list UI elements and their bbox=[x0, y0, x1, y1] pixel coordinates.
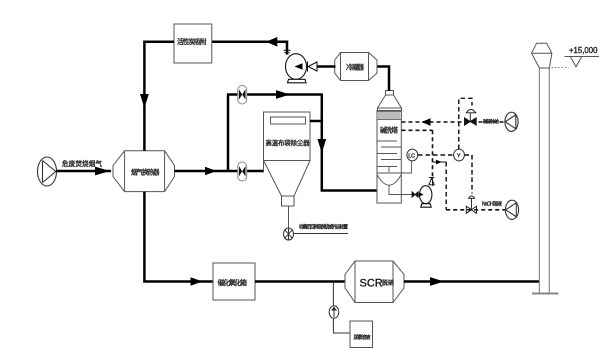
arrowhead right into pump bbox=[419, 192, 424, 197]
rotary star valve under hopper bbox=[284, 228, 294, 240]
control valve CV2 with actuator dome bbox=[466, 196, 476, 213]
node: raw flue gas source connector bbox=[38, 157, 57, 186]
wire: Y right and down signal to bottom control valve bbox=[465, 155, 473, 194]
alkali scrubber tower T1 bbox=[377, 91, 402, 204]
wire: fan discharge up and left bbox=[266, 42, 287, 55]
wire: branch jog to blowdown bbox=[433, 161, 447, 163]
arrowhead right into catalytic oxidation box bbox=[191, 277, 203, 286]
wire: condenser to check valve bbox=[317, 65, 336, 68]
wire: bypass horizontal line bbox=[227, 93, 322, 96]
damper valve V1 on bypass bbox=[238, 86, 247, 105]
wire: pump discharge stub bbox=[432, 178, 434, 186]
condenser E1 octagon bbox=[335, 53, 377, 81]
wire: catalytic box to SCR bbox=[255, 280, 345, 283]
wire: bag filter outlet bbox=[310, 120, 322, 123]
arrowhead down into heat exchanger bbox=[140, 94, 149, 108]
wire: carbon box to heat exchanger top bbox=[144, 42, 174, 151]
svg-text:Y: Y bbox=[457, 153, 461, 159]
urea injection valve circle with up arrow bbox=[329, 306, 339, 319]
LC level controller instrument bbox=[407, 149, 418, 161]
arrowhead down on downcomer bbox=[317, 139, 326, 153]
check valve on pump riser bbox=[429, 178, 435, 185]
svg-text:收集后回转窑焚烧或外运处置: 收集后回转窑焚烧或外运处置 bbox=[299, 224, 348, 231]
arrowhead right on HX outlet bbox=[205, 167, 217, 176]
wire: inlet to heat exchanger bbox=[57, 170, 112, 173]
arrowhead right into heat exchanger bbox=[95, 167, 110, 176]
svg-text:尿素溶液: 尿素溶液 bbox=[354, 334, 371, 341]
svg-text:+15,000: +15,000 bbox=[569, 46, 598, 55]
fan discharge flange ticks bbox=[284, 50, 291, 52]
svg-text:冷凝器: 冷凝器 bbox=[346, 63, 364, 72]
activated carbon adsorber box bbox=[174, 24, 212, 63]
svg-text:脱硝: 脱硝 bbox=[382, 279, 394, 287]
tower trays bbox=[377, 141, 401, 173]
svg-text:高温布袋除尘器: 高温布袋除尘器 bbox=[266, 138, 311, 147]
wire: to scrubber inlet bbox=[321, 189, 377, 192]
stack / chimney bbox=[532, 68, 559, 294]
packing band with hatch bbox=[377, 112, 401, 120]
svg-text:危废焚烧烟气: 危废焚烧烟气 bbox=[62, 159, 102, 168]
wire: jog down dashed bbox=[445, 162, 447, 210]
wire: downcomer to scrubber bbox=[321, 94, 324, 192]
arrowhead left on feed into tower bbox=[422, 118, 431, 125]
control valve CV1 with actuator dome bbox=[465, 109, 477, 125]
arrowhead right on bypass bbox=[276, 90, 290, 99]
SCR denitration octagon bbox=[345, 261, 404, 303]
svg-text:SCR: SCR bbox=[360, 278, 383, 290]
wire: hopper drop pipe bbox=[288, 206, 290, 229]
wire: branch riser to bypass bbox=[227, 95, 230, 173]
Y controller instrument bbox=[454, 149, 465, 161]
svg-text:NaOH溶液: NaOH溶液 bbox=[482, 201, 502, 208]
svg-text:碱液补给: 碱液补给 bbox=[483, 118, 499, 125]
wire: into activated carbon box bbox=[212, 41, 266, 44]
wire: spray return line into tower dashed bbox=[402, 129, 433, 131]
heat exchanger U-HX octagon bbox=[113, 151, 175, 192]
valve on pump suction bbox=[412, 192, 418, 198]
node: alkali feed source connector top right bbox=[505, 112, 518, 131]
urea solution box bbox=[350, 321, 373, 348]
bag filter: high temperature baghouse bbox=[264, 112, 311, 206]
wire: heat exchanger bottom to catalytic box bbox=[144, 192, 213, 282]
svg-text:LC: LC bbox=[408, 153, 415, 159]
svg-text:催化氧化箱: 催化氧化箱 bbox=[218, 278, 248, 287]
wire: tower top to condenser bbox=[377, 67, 390, 92]
wire: bottom feed line dashed bbox=[446, 209, 505, 211]
arrowhead left inside fan bbox=[295, 63, 303, 70]
induced draft fan / pump P1 bbox=[286, 54, 307, 83]
svg-text:碱洗塔: 碱洗塔 bbox=[380, 126, 398, 135]
node: NaOH source connector bottom right bbox=[505, 200, 518, 219]
wire: Y up signal to top control valve bbox=[459, 98, 472, 149]
wire: heat exchanger to branch point bbox=[175, 170, 264, 173]
svg-text:烟气换热器: 烟气换热器 bbox=[131, 168, 160, 177]
check valve at fan suction bbox=[308, 62, 318, 72]
label: dust disposal note with leader line bbox=[294, 233, 349, 235]
wire: fresh alkali feed dashed to tower bbox=[402, 121, 505, 123]
wire: urea box connection bbox=[333, 318, 350, 333]
wire: LC to Y signal dashed bbox=[418, 154, 454, 156]
arrowhead right to stack bbox=[430, 277, 444, 286]
svg-text:活性炭吸附: 活性炭吸附 bbox=[177, 37, 207, 46]
dished bottom and drain of tower bbox=[377, 175, 401, 186]
wire: pump riser dashed bbox=[432, 130, 434, 178]
arrowhead small right in jog bbox=[436, 160, 442, 165]
stack cap bbox=[532, 43, 552, 68]
wire: urea feed drop bbox=[332, 282, 334, 307]
circulation pump P2 bbox=[420, 186, 432, 208]
wire: SCR to stack bbox=[404, 280, 540, 283]
LC tap line bbox=[400, 161, 412, 173]
arrowhead left into carbon box line bbox=[266, 37, 277, 47]
damper valve V2 on main line bbox=[238, 162, 247, 181]
catalytic oxidation box bbox=[213, 263, 255, 300]
